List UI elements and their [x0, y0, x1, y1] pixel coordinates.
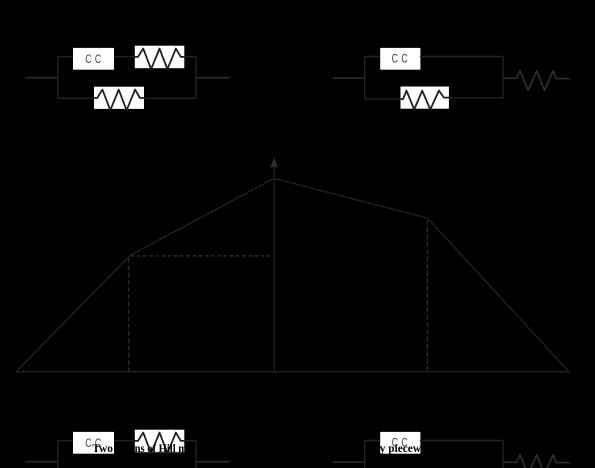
wire right vertical branch: [195, 57, 197, 99]
wire top branch to CC: [57, 56, 73, 58]
wire PE to right vertical: [449, 97, 503, 99]
dashed horizontal level line: [131, 255, 275, 257]
wire CC to SE resistor: [114, 56, 135, 58]
svg-text:Two: Two: [92, 443, 113, 455]
wire left lead: [25, 461, 58, 463]
wire left vertical branch: [57, 441, 59, 468]
svg-text:C: C: [85, 52, 91, 66]
resistor PE box: [401, 87, 449, 109]
svg-text:C: C: [392, 52, 398, 66]
wire right vertical branch: [195, 441, 197, 468]
y-axis: [273, 167, 275, 372]
x-axis baseline: [16, 371, 569, 373]
wire SE to right vertical: [184, 440, 196, 442]
wire right lead: [196, 461, 230, 463]
resistor SE zigzag: [135, 433, 185, 454]
box CC (contractile component): [380, 48, 420, 70]
dashed vertical line left: [128, 258, 130, 372]
dashed vertical line right: [426, 220, 428, 372]
wire CC to right vertical: [420, 56, 503, 58]
wire SE to right vertical: [184, 56, 196, 58]
wire top branch to CC: [57, 440, 73, 442]
y-axis arrowhead: [270, 158, 278, 168]
svg-text:C: C: [95, 52, 101, 66]
wire top branch to CC: [364, 440, 380, 442]
wire bottom branch to PE: [364, 98, 401, 100]
svg-text:ns of Hill m: ns of Hill m: [135, 443, 188, 455]
wire right vertical branch: [502, 57, 504, 99]
wire bottom branch to PE: [57, 97, 94, 99]
resistor PE box (parallel elastic): [94, 87, 144, 109]
resistor PE zigzag: [401, 91, 450, 110]
wire right lead to series spring: [503, 461, 516, 463]
wire top branch to CC: [364, 56, 380, 58]
wire left lead: [25, 77, 58, 79]
resistor SE box (series elastic): [135, 46, 185, 68]
svg-text:C: C: [85, 436, 91, 450]
wire right vertical branch: [502, 441, 504, 468]
wire CC to right vertical: [420, 440, 503, 442]
resistor SE zigzag (series elastic, bare): [517, 71, 559, 90]
wire right tail: [559, 78, 570, 80]
curve right falling segment: [428, 218, 569, 372]
wire right lead: [196, 77, 230, 79]
svg-text:C: C: [401, 52, 407, 66]
resistor SE zigzag (bare, cropped): [517, 455, 559, 468]
resistor PE zigzag: [94, 90, 144, 111]
box CC (contractile component): [73, 48, 114, 70]
wire right tail: [559, 462, 570, 464]
resistor SE zigzag: [135, 49, 185, 70]
curve left rising segment: [16, 256, 130, 372]
wire left vertical branch: [57, 57, 59, 99]
wire left vertical branch: [364, 57, 366, 100]
box CC (contractile component): [73, 432, 114, 454]
curve mid-right segment from apex: [274, 178, 428, 218]
wire left vertical branch: [364, 441, 366, 468]
curve mid-left segment to apex: [130, 178, 274, 255]
wire CC to SE resistor: [114, 440, 135, 442]
resistor SE box: [135, 430, 185, 453]
wire left lead: [333, 461, 365, 463]
svg-text:y piecew: y piecew: [380, 443, 422, 455]
wire PE to right vertical: [144, 97, 196, 99]
wire right lead to series spring: [503, 77, 516, 79]
box CC (contractile component): [380, 432, 420, 454]
wire left lead: [333, 77, 365, 79]
